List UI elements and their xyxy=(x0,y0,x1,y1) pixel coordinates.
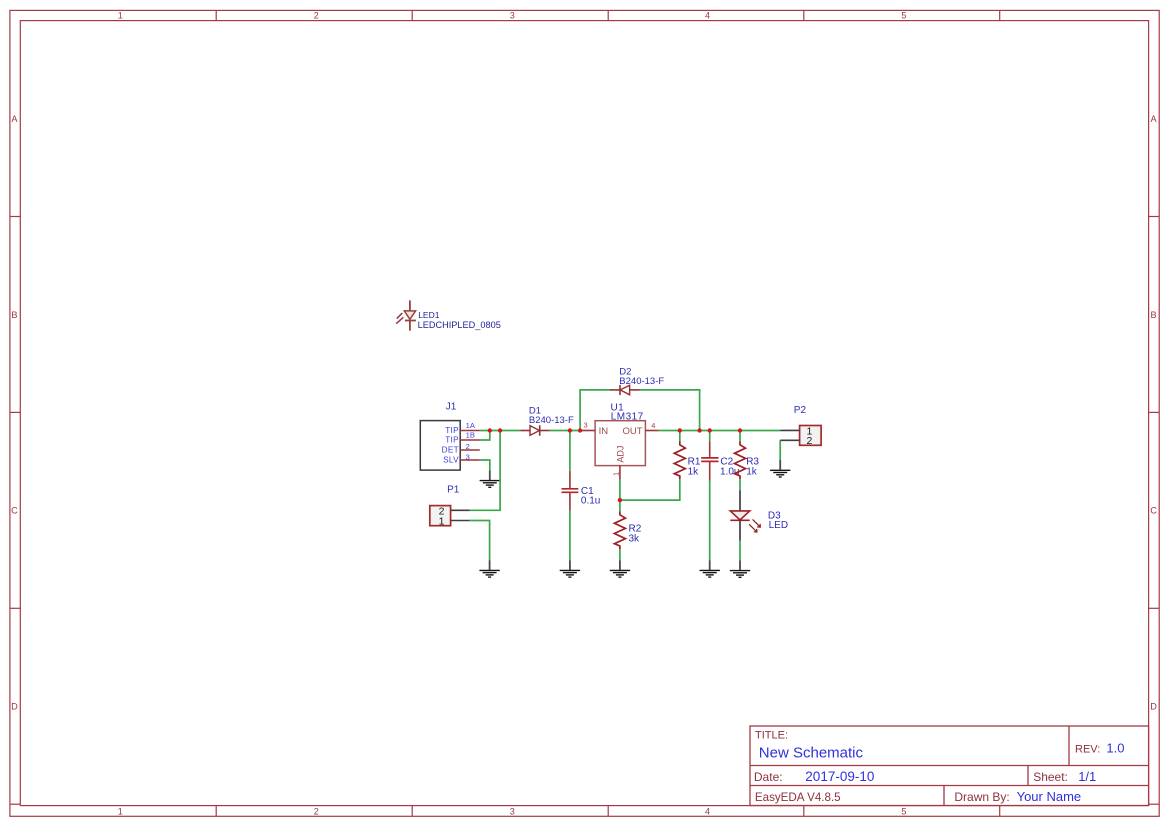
J1 pin 1A TIP xyxy=(460,430,480,432)
svg-text:3: 3 xyxy=(510,806,515,816)
J1 pin 2 DET xyxy=(460,449,480,451)
wire D1 to U1 xyxy=(549,430,580,432)
wire rail to R1 xyxy=(679,431,681,442)
resistor R1 xyxy=(674,441,701,479)
R1 zigzag body xyxy=(674,441,685,479)
svg-text:1k: 1k xyxy=(746,466,758,477)
wire C1 to ground xyxy=(569,510,571,560)
J1 pin 3 SLV xyxy=(460,459,480,461)
wire R3 to D3 xyxy=(739,479,741,490)
svg-text:OUT: OUT xyxy=(623,426,643,437)
svg-text:Drawn By:: Drawn By: xyxy=(954,790,1009,804)
wire ADJ node to R2 xyxy=(619,500,621,511)
svg-text:1B: 1B xyxy=(466,431,475,440)
D3 cathode bar xyxy=(730,519,749,521)
svg-text:3k: 3k xyxy=(629,533,641,544)
svg-text:1: 1 xyxy=(439,516,445,528)
svg-text:EasyEDA V4.8.5: EasyEDA V4.8.5 xyxy=(755,791,841,804)
connector P2 xyxy=(780,405,821,447)
svg-text:2: 2 xyxy=(314,806,319,816)
wire J1 pin 1B to rail xyxy=(480,431,490,441)
P2 body xyxy=(800,426,822,446)
svg-text:4: 4 xyxy=(705,11,710,21)
R3 zigzag body xyxy=(735,441,746,479)
J1 pin 1B TIP xyxy=(460,439,480,441)
wire P1 pin 1 to ground xyxy=(470,521,490,561)
svg-text:4: 4 xyxy=(705,806,710,816)
svg-text:5: 5 xyxy=(901,806,906,816)
svg-text:New Schematic: New Schematic xyxy=(759,744,864,761)
regulator U1 LM317 xyxy=(580,403,659,480)
LED1 anode lead xyxy=(409,300,411,311)
wire ADJ node to R1 bottom xyxy=(620,479,680,500)
wire rail to C1 xyxy=(569,431,571,471)
junction at 1B/rail xyxy=(488,428,492,432)
D1 triangle xyxy=(530,426,540,436)
svg-text:LED: LED xyxy=(769,520,788,531)
svg-text:1A: 1A xyxy=(466,421,476,430)
D2 cathode lead xyxy=(610,389,620,391)
svg-text:TIP: TIP xyxy=(445,426,459,435)
D1 cathode lead xyxy=(540,430,550,432)
P1 body xyxy=(430,506,451,526)
P1 pin 2 lead xyxy=(451,509,470,511)
resistor R3 xyxy=(735,441,760,479)
D3 emission arrows xyxy=(749,519,760,532)
connector P1 xyxy=(430,485,470,528)
LED1 cathode lead xyxy=(409,321,411,331)
wire rail to C2 xyxy=(709,431,711,442)
svg-text:J1: J1 xyxy=(446,401,457,412)
svg-text:LM317: LM317 xyxy=(611,412,644,423)
wire J1 SLV to ground xyxy=(480,460,490,470)
J1 body xyxy=(420,421,460,471)
svg-text:Date:: Date: xyxy=(754,770,783,784)
svg-text:LED1: LED1 xyxy=(418,310,440,320)
P2 pin 2 lead xyxy=(780,439,799,441)
capacitor C1 xyxy=(562,471,601,511)
svg-text:B: B xyxy=(11,310,17,320)
svg-text:A: A xyxy=(11,114,18,124)
wire R2 to ground xyxy=(619,549,621,560)
junction at R3 xyxy=(738,428,742,432)
D1 cathode bar xyxy=(539,425,541,436)
ground at P2 xyxy=(770,460,790,477)
svg-text:3: 3 xyxy=(584,421,588,430)
svg-text:REV:: REV: xyxy=(1075,744,1100,756)
svg-text:2: 2 xyxy=(466,442,470,451)
C2 plates xyxy=(701,457,718,459)
svg-text:B240-13-F: B240-13-F xyxy=(529,415,574,426)
U1 pin 3 IN lead xyxy=(580,430,595,432)
C1 bottom lead xyxy=(569,493,571,511)
svg-text:C: C xyxy=(11,506,18,516)
wire C2 to ground xyxy=(709,481,711,561)
svg-text:1.0: 1.0 xyxy=(1106,741,1124,756)
junction at D2 right xyxy=(697,428,701,432)
svg-text:0.1u: 0.1u xyxy=(581,495,600,506)
LED1 cathode bar xyxy=(405,320,416,322)
wire D3 to ground xyxy=(739,541,741,561)
junction at P1 drop xyxy=(498,428,502,432)
junction at C1 xyxy=(568,428,572,432)
svg-text:Sheet:: Sheet: xyxy=(1033,770,1068,784)
C1 plates xyxy=(562,488,579,490)
R2 zigzag body xyxy=(614,511,625,549)
svg-text:DET: DET xyxy=(442,445,459,454)
svg-text:4: 4 xyxy=(651,421,655,430)
diode D2 xyxy=(610,367,664,396)
U1 pin 4 OUT lead xyxy=(645,430,658,432)
led LED1 xyxy=(396,300,501,330)
svg-text:1: 1 xyxy=(118,11,123,21)
svg-text:ADJ: ADJ xyxy=(615,446,625,463)
svg-text:TITLE:: TITLE: xyxy=(755,730,788,742)
svg-text:1k: 1k xyxy=(688,466,700,477)
capacitor C2 xyxy=(701,441,739,480)
ground at C2 xyxy=(700,560,720,577)
wire U1 ADJ down xyxy=(619,480,621,500)
junction at C2 xyxy=(708,428,712,432)
U1 body xyxy=(595,421,645,466)
svg-text:3: 3 xyxy=(510,11,515,21)
resistor R2 xyxy=(614,511,641,549)
svg-text:B: B xyxy=(1151,310,1157,320)
svg-text:Your Name: Your Name xyxy=(1017,789,1082,804)
wire rail to R3 xyxy=(739,431,741,442)
D2 cathode bar xyxy=(619,385,621,395)
wire D2 cathode loop to rail xyxy=(640,390,700,431)
D3 anode lead xyxy=(739,490,741,511)
svg-text:P2: P2 xyxy=(794,405,807,416)
D2 triangle xyxy=(620,385,629,395)
svg-text:D: D xyxy=(1150,702,1157,712)
svg-text:B240-13-F: B240-13-F xyxy=(619,376,664,387)
C2 bottom lead xyxy=(709,462,711,481)
svg-text:3: 3 xyxy=(466,453,470,462)
svg-text:D: D xyxy=(11,702,18,712)
ground at D3 xyxy=(730,560,750,577)
svg-text:A: A xyxy=(1151,114,1158,124)
svg-text:IN: IN xyxy=(599,426,609,437)
J1 pin names xyxy=(442,426,460,464)
svg-text:1: 1 xyxy=(611,472,620,476)
led D3 xyxy=(730,490,788,540)
LED1 emission strokes xyxy=(397,313,403,319)
svg-text:1/1: 1/1 xyxy=(1078,769,1096,784)
ground at C1 xyxy=(560,560,580,577)
LED1 triangle xyxy=(404,311,415,319)
D3 cathode lead xyxy=(739,520,741,540)
P1 pin 1 lead xyxy=(451,520,470,522)
wire rail to D2 anode loop xyxy=(580,390,610,431)
ground at P1 xyxy=(479,560,499,577)
svg-text:1.0u: 1.0u xyxy=(720,466,739,477)
connector J1 xyxy=(420,401,480,470)
ground at J1 SLV xyxy=(480,470,500,487)
junction at D2 left xyxy=(578,428,582,432)
svg-text:SLV: SLV xyxy=(443,455,459,464)
svg-text:2017-09-10: 2017-09-10 xyxy=(805,769,874,784)
svg-text:1: 1 xyxy=(118,806,123,816)
D1 anode lead xyxy=(520,430,530,432)
C2 top lead xyxy=(709,441,711,457)
svg-text:LEDCHIPLED_0805: LEDCHIPLED_0805 xyxy=(418,320,501,330)
diode D1 xyxy=(520,406,574,436)
C1 top lead xyxy=(569,471,571,488)
wire P2 pin 2 to ground xyxy=(779,440,781,460)
D2 anode lead xyxy=(630,389,640,391)
J1 pin numbers xyxy=(466,421,476,462)
junction at ADJ node xyxy=(618,498,622,502)
svg-text:C: C xyxy=(1150,506,1157,516)
svg-text:P1: P1 xyxy=(447,485,460,496)
svg-text:TIP: TIP xyxy=(445,436,459,445)
svg-text:5: 5 xyxy=(901,11,906,21)
junction at R1 xyxy=(678,428,682,432)
wire U1 OUT to P2 xyxy=(659,430,781,432)
P2 pin 1 lead xyxy=(780,429,799,431)
svg-text:2: 2 xyxy=(314,11,319,21)
D3 triangle xyxy=(730,511,749,520)
ground at R2 xyxy=(610,560,630,577)
svg-text:2: 2 xyxy=(807,435,813,447)
U1 pin 1 ADJ lead xyxy=(619,466,621,480)
wire rail to P1 pin 2 xyxy=(470,431,501,511)
wire rail J1 to D1 xyxy=(480,430,520,432)
